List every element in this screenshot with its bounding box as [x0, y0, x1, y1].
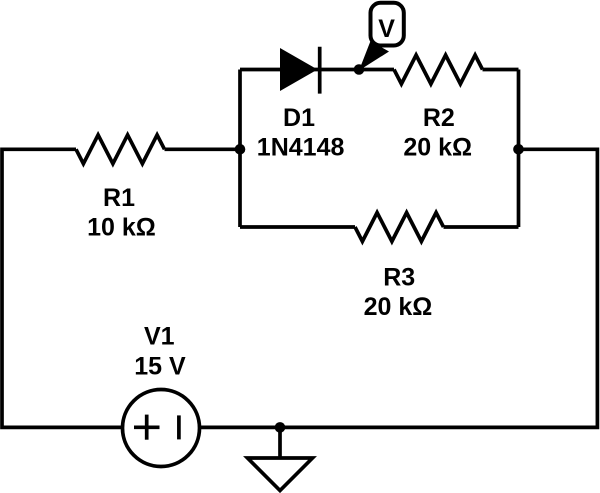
- svg-text:20 kΩ: 20 kΩ: [403, 134, 472, 162]
- svg-text:V1: V1: [144, 322, 175, 350]
- svg-text:V: V: [378, 15, 395, 43]
- svg-text:R2: R2: [423, 104, 455, 132]
- svg-text:15 V: 15 V: [134, 352, 186, 380]
- svg-text:20 kΩ: 20 kΩ: [364, 293, 433, 321]
- svg-text:R3: R3: [383, 264, 415, 292]
- svg-text:1N4148: 1N4148: [257, 134, 345, 162]
- svg-text:D1: D1: [283, 104, 315, 132]
- svg-text:R1: R1: [103, 184, 135, 212]
- svg-text:10 kΩ: 10 kΩ: [87, 214, 156, 242]
